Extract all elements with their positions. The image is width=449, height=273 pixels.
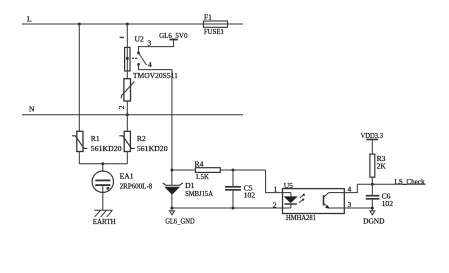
wire pin4 to LS_Check xyxy=(344,184,357,192)
power VDD3.3 xyxy=(361,131,384,140)
svg-text:N: N xyxy=(29,105,35,114)
pin 1 mark U2 xyxy=(120,37,124,38)
LED light arrows xyxy=(299,194,305,203)
svg-text:2K: 2K xyxy=(377,161,387,170)
wire L to R1 xyxy=(78,24,80,131)
svg-text:EA1: EA1 xyxy=(120,172,134,181)
svg-text:GL6_5V0: GL6_5V0 xyxy=(159,31,188,40)
phototransistor inside U5 xyxy=(324,193,345,209)
node junction D1-C5-U5pin2 xyxy=(170,207,173,210)
svg-text:U2: U2 xyxy=(135,35,144,44)
wire pin2 xyxy=(172,207,283,209)
capacitor C5 xyxy=(225,170,255,208)
svg-text:1.5K: 1.5K xyxy=(195,172,209,181)
wire LS_Check xyxy=(357,183,425,185)
svg-text:DGND: DGND xyxy=(363,217,385,226)
wire R2 to join xyxy=(126,152,128,164)
optocoupler U5 xyxy=(283,181,345,222)
resistor R3 xyxy=(370,140,386,185)
varistor R1 xyxy=(72,131,122,153)
svg-text:102: 102 xyxy=(382,199,394,208)
mechanical link dashes xyxy=(132,57,137,59)
wire join to EA1 xyxy=(102,164,104,181)
node junction D1-R4 xyxy=(170,169,173,172)
capacitor C6 xyxy=(366,184,393,208)
varistor R2 xyxy=(119,131,168,153)
wire L to U2 column xyxy=(126,24,128,115)
wire pin3 to GL6_5V0 xyxy=(139,40,174,53)
switch armature xyxy=(139,53,147,65)
ground GL6_GND xyxy=(165,208,195,226)
node junction C5 top xyxy=(232,169,235,172)
svg-text:U5: U5 xyxy=(284,181,293,190)
node junction EA1 xyxy=(101,162,104,165)
earth ground xyxy=(93,210,116,226)
svg-text:L: L xyxy=(27,15,32,24)
svg-text:F1: F1 xyxy=(204,13,212,22)
svg-text:102: 102 xyxy=(244,190,256,199)
svg-text:561KD20: 561KD20 xyxy=(137,144,168,153)
svg-text:3: 3 xyxy=(147,38,151,47)
node junction R3-C6 xyxy=(371,183,374,186)
wire pin3 to DGND xyxy=(344,207,372,209)
node junction C5 bottom xyxy=(232,207,235,210)
svg-text:LS_Check: LS_Check xyxy=(394,177,424,186)
wire L line xyxy=(22,23,243,25)
svg-text:R4: R4 xyxy=(195,160,204,169)
svg-text:2: 2 xyxy=(117,105,126,109)
svg-text:VDD3.3: VDD3.3 xyxy=(361,131,384,140)
fuse F1 xyxy=(203,13,227,36)
svg-text:TMOV20S511: TMOV20S511 xyxy=(133,71,178,80)
gas discharge tube EA1 xyxy=(92,171,152,192)
power GL6_5V0 xyxy=(159,31,188,40)
svg-text:2: 2 xyxy=(273,201,277,210)
svg-text:HMHA281: HMHA281 xyxy=(286,213,316,222)
node junction L-R1 xyxy=(78,23,81,26)
svg-text:GL6_GND: GL6_GND xyxy=(165,217,195,226)
thermal element of U2 xyxy=(125,47,130,71)
wire R1 to join xyxy=(78,152,80,164)
resistor R4 xyxy=(195,160,221,181)
diode D1 TVS xyxy=(163,170,214,208)
node junction L-U2 xyxy=(126,23,129,26)
varistor body of U2 TMOV20S511 xyxy=(121,71,178,101)
wire join R1-R2 xyxy=(79,163,127,165)
svg-text:FUSE1: FUSE1 xyxy=(204,27,224,36)
svg-text:4: 4 xyxy=(148,60,152,69)
LED inside U5 xyxy=(283,193,297,208)
wire N line xyxy=(22,114,243,116)
svg-text:R1: R1 xyxy=(91,134,100,143)
wire corner down to pin1 xyxy=(266,170,283,193)
svg-text:1: 1 xyxy=(274,184,278,193)
wire EA1 to earth xyxy=(102,185,104,210)
wire N to R2 xyxy=(126,115,128,132)
svg-text:561KD20: 561KD20 xyxy=(91,144,122,153)
wire R4 to corner xyxy=(220,169,265,171)
ground DGND xyxy=(363,208,385,226)
svg-text:2RP600L-8: 2RP600L-8 xyxy=(120,182,153,191)
wire to R4 xyxy=(172,169,196,171)
svg-text:R2: R2 xyxy=(137,134,146,143)
node junction C6 bottom xyxy=(371,207,374,210)
svg-text:EARTH: EARTH xyxy=(93,217,116,226)
switch contact top pin 3 xyxy=(137,52,140,55)
switch contact bottom pin 4 xyxy=(137,63,140,66)
svg-text:SMBJ15A: SMBJ15A xyxy=(185,189,213,198)
wire pin4 down xyxy=(139,64,172,170)
node junction N-U2-R2 xyxy=(126,113,129,116)
